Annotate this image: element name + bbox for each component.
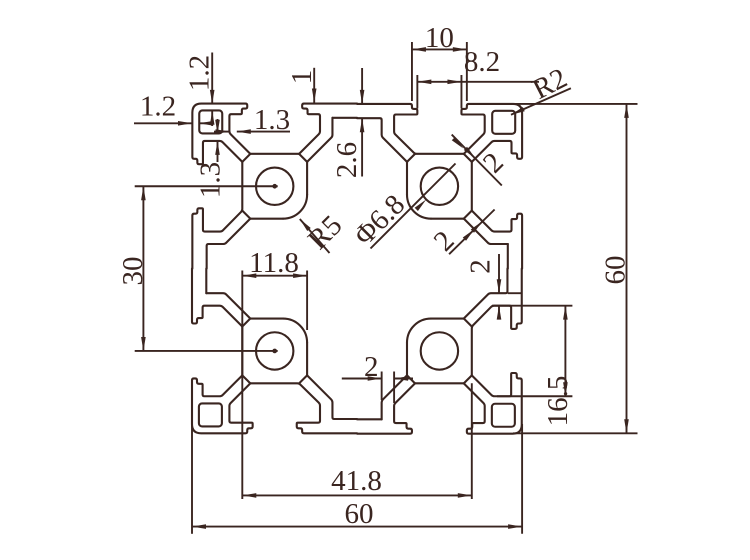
svg-text:1.3: 1.3: [254, 104, 290, 136]
block edge: [406, 162, 408, 195]
block edge: [471, 162, 473, 211]
bridge wall inner surface: [507, 244, 509, 269]
bridge web inner line: [307, 118, 332, 162]
dimension 2 (bridge web thickness): [449, 210, 495, 255]
dimension 1.2 (corner wall): [211, 53, 213, 104]
block edge: [306, 343, 308, 376]
block edge: [431, 218, 464, 220]
block corner chamfer: [407, 375, 415, 383]
corner screw channel square: [199, 110, 222, 133]
hole Phi 6.8: [256, 168, 293, 205]
svg-text:41.8: 41.8: [331, 465, 382, 497]
block corner chamfer: [242, 375, 250, 383]
bridge web inner line: [206, 293, 250, 318]
block corner chamfer: [242, 319, 250, 327]
dimension 2.6 (wall thickness): [361, 68, 363, 104]
block edge: [415, 382, 464, 384]
block corner chamfer: [299, 375, 307, 383]
block R5 rounded corner: [407, 319, 431, 343]
block edge: [250, 318, 283, 320]
dimension 2 (web thickness right): [508, 292, 522, 294]
dimension 60 (overall width): [191, 424, 193, 534]
corner screw channel square: [199, 403, 222, 426]
corner screw channel square: [492, 111, 515, 134]
leader Phi 6.8 (hole diameter): [371, 164, 456, 249]
svg-text:16.5: 16.5: [542, 376, 574, 427]
block R5 rounded corner: [283, 195, 307, 219]
block corner chamfer: [242, 154, 250, 162]
svg-text:2: 2: [465, 259, 497, 274]
face wall with T-slot lip and cavity web: [192, 269, 242, 327]
block edge: [406, 343, 408, 376]
block corner chamfer: [464, 319, 472, 327]
bridge wall inner surface: [357, 418, 382, 420]
corner wall with rounded outer corner, slot lips and corner webs: [192, 104, 250, 165]
dimension 11.8 (block width): [306, 271, 308, 331]
face wall with T-slot lip and cavity web: [299, 104, 357, 154]
face wall with T-slot lip and cavity web: [472, 211, 522, 269]
block corner chamfer: [464, 154, 472, 162]
bridge web inner line and wall inner surface: [464, 269, 508, 319]
dimension 1.3 (channel wall): [237, 131, 290, 133]
block R5 rounded corner: [283, 319, 307, 343]
svg-text:1.2: 1.2: [184, 55, 216, 91]
block edge: [306, 162, 308, 195]
dimension 8.2 (slot opening): [416, 75, 418, 109]
face outer wall, T-slot lip and cavity web: [250, 383, 357, 433]
corner wall with rounded outer corner, slot lips and corner webs: [461, 104, 522, 162]
dimension 16.5 (cavity span): [492, 305, 572, 307]
hole Phi 6.8: [421, 332, 458, 369]
bridge wall inner surface: [205, 269, 207, 294]
hole Phi 6.8: [256, 332, 293, 369]
bridge wall inner surface: [332, 117, 357, 119]
block corner chamfer: [407, 154, 415, 162]
svg-text:2.6: 2.6: [331, 142, 363, 178]
leader R5 (block corner radius): [300, 219, 330, 253]
dimension 2 (corner web thickness): [452, 135, 502, 186]
block corner chamfer: [299, 154, 307, 162]
svg-text:1.3: 1.3: [195, 162, 227, 198]
dimension 1.3 (channel wall): [217, 119, 219, 134]
block corner chamfer: [464, 211, 472, 219]
svg-text:10: 10: [425, 22, 454, 54]
block corner chamfer: [242, 211, 250, 219]
face wall with T-slot lip and cavity web: [357, 383, 415, 433]
bridge web inner line and wall inner surface: [357, 118, 407, 162]
dimension 1.2 (corner wall): [134, 122, 192, 124]
hole Phi 6.8: [421, 168, 458, 205]
svg-text:60: 60: [345, 498, 374, 530]
bridge web inner line: [464, 219, 508, 244]
bridge web inner line and wall inner surface: [307, 375, 357, 419]
dimension 41.8: [241, 271, 243, 500]
svg-text:60: 60: [600, 256, 632, 285]
block R5 rounded corner: [407, 195, 431, 219]
dimension 1 (lip): [313, 68, 315, 103]
face outer wall, T-slot lip and cavity web: [357, 104, 464, 154]
leader R2 (corner radius): [511, 88, 571, 115]
dimension 10 (slot neck width): [411, 42, 413, 101]
block edge: [241, 327, 243, 376]
dimension 60 (overall height): [513, 103, 638, 105]
block edge: [250, 218, 283, 220]
block edge: [250, 153, 299, 155]
svg-text:11.8: 11.8: [249, 247, 299, 279]
face outer wall, T-slot lip and cavity web: [192, 162, 242, 269]
corner screw channel square: [492, 404, 515, 427]
dimension 30 (hole pitch): [135, 185, 278, 187]
svg-text:1.2: 1.2: [140, 91, 176, 123]
corner wall with rounded outer corner, slot lips and corner webs: [192, 375, 253, 433]
face outer wall, T-slot lip and cavity web: [472, 269, 522, 376]
svg-text:1: 1: [286, 70, 318, 85]
dimension 2 (web thickness): [381, 372, 383, 401]
block edge: [431, 318, 464, 320]
svg-text:2: 2: [364, 351, 379, 383]
svg-text:30: 30: [117, 257, 149, 286]
block corner chamfer: [464, 375, 472, 383]
svg-text:8.2: 8.2: [464, 46, 500, 78]
bridge web inner line: [382, 375, 407, 419]
bridge web inner line and wall inner surface: [207, 219, 251, 269]
corner wall with rounded outer corner, slot lips and corner webs: [464, 373, 522, 434]
